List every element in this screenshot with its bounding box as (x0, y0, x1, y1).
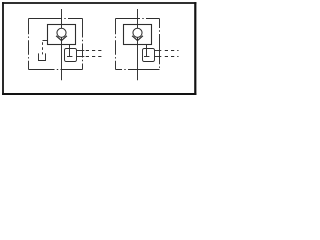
drain stub from B1 left side (43, 40, 48, 42)
port stub Y2 (lower) (155, 56, 162, 58)
port stub X1 (upper) (77, 50, 85, 52)
enclosure E2 bottom edge (dash-dot) (116, 69, 160, 71)
check valve V1 ball (57, 28, 66, 37)
cavity plug housing S1 (65, 49, 77, 62)
enclosure E1 bottom edge (dash-dot) (29, 69, 83, 71)
check valve V1 seat (56, 36, 67, 41)
wire: connection B1 bottom to cavity S1 / plug stem (69, 45, 71, 57)
enclosure E1 top edge (dash-dot) (29, 18, 83, 20)
pilot line Y1 dashed (86, 56, 103, 58)
wire: main port line through valve (left), top stub to bottom port (61, 9, 63, 80)
wire: main port line through valve (right), top stub to bottom port (137, 9, 139, 80)
enclosure E2 left edge (dash-dot) (115, 19, 117, 70)
enclosure E1 right edge (dash-dot) (82, 19, 84, 70)
drain pilot line (dashed) to tank (42, 42, 44, 54)
enclosure E1 left edge (dash-dot) (28, 19, 30, 70)
check valve V2 seat (132, 36, 143, 41)
plug bar inside S2 (144, 56, 149, 58)
tank symbol T1 (39, 53, 46, 60)
port stub Y1 (lower) (77, 56, 85, 58)
plug bar inside S1 (67, 56, 72, 58)
enclosure E2 right edge (dash-dot) (159, 19, 161, 70)
valve body B1 (48, 25, 76, 45)
pilot line Y2 dashed (165, 56, 179, 58)
pilot line X1 dashed (86, 50, 103, 52)
valve body B2 (124, 25, 152, 45)
port stub X2 (upper) (155, 50, 162, 52)
enclosure E2 top edge (dash-dot) (116, 18, 160, 20)
wire: connection B2 bottom to cavity S2 / plug stem (146, 45, 148, 57)
cavity plug housing S2 (143, 49, 155, 62)
check valve V2 ball (133, 28, 142, 37)
pilot line X2 dashed (165, 50, 179, 52)
